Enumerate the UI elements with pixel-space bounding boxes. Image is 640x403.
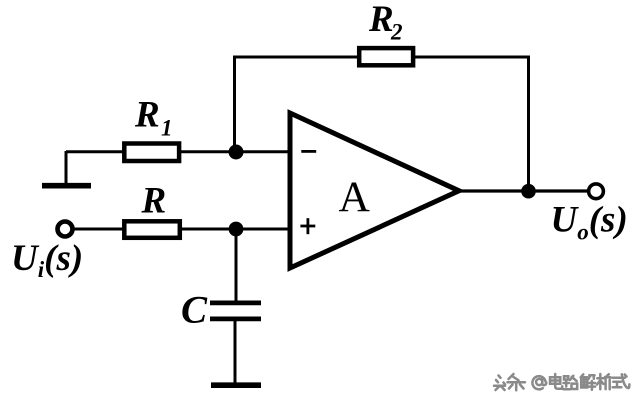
- wire inverting row: [66, 150, 290, 153]
- svg-text:2: 2: [390, 20, 403, 45]
- wire non-inverting row: [73, 228, 290, 231]
- wire top feedback horizontal: [233, 56, 530, 59]
- wire feedback right vertical: [527, 56, 530, 191]
- resistor R2: [359, 0, 413, 65]
- ground bottom: [211, 382, 261, 388]
- svg-text:R: R: [368, 0, 394, 40]
- terminal input circle: [58, 222, 73, 237]
- capacitor C: [181, 289, 261, 332]
- terminal output circle: [589, 184, 604, 199]
- node output junction: [521, 184, 536, 199]
- svg-text:1: 1: [161, 116, 173, 141]
- wire capacitor lower: [234, 321, 237, 383]
- svg-text:Ui(s): Ui(s): [11, 238, 83, 282]
- ground left: [42, 151, 91, 186]
- node non-inverting junction: [229, 222, 244, 237]
- pin minus: [301, 150, 316, 153]
- svg-text:C: C: [181, 289, 208, 332]
- op-amp A: [290, 113, 459, 268]
- pin plus: [300, 218, 315, 234]
- svg-text:Uo(s): Uo(s): [551, 200, 628, 245]
- wire capacitor upper: [235, 229, 238, 301]
- resistor R: [124, 181, 180, 238]
- resistor R1: [124, 95, 179, 162]
- wire feedback left vertical: [233, 56, 236, 152]
- node inverting junction: [229, 145, 244, 160]
- watermark: [494, 374, 629, 390]
- svg-text:A: A: [339, 173, 371, 221]
- svg-text:R: R: [141, 181, 167, 222]
- wire output: [457, 189, 588, 192]
- svg-text:R: R: [134, 95, 160, 136]
